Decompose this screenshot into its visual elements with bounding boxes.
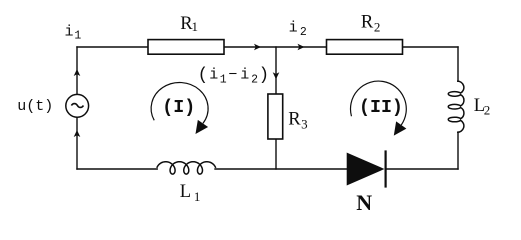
source U1 sine symbol [71, 104, 83, 108]
svg-text:2: 2 [374, 19, 381, 34]
wire bottom middle segment [215, 168, 348, 170]
svg-text:R: R [361, 12, 374, 32]
wire right vertical lower [457, 132, 459, 169]
wire middle branch lower [275, 139, 277, 169]
resistor R2 [327, 40, 403, 55]
svg-text:1: 1 [74, 30, 81, 43]
svg-text:i: i [65, 23, 74, 40]
inductor L1 [157, 162, 216, 174]
svg-text:i: i [209, 67, 218, 84]
svg-text:u(t): u(t) [17, 98, 53, 115]
mesh loop II arrowhead [394, 121, 407, 135]
resistor R3 [268, 94, 283, 139]
svg-text:1: 1 [220, 74, 227, 87]
mesh loop II arc [350, 81, 406, 125]
svg-text:L: L [180, 182, 191, 202]
svg-text:1: 1 [192, 19, 199, 34]
svg-text:(: ( [198, 65, 209, 85]
wire bottom right segment [386, 168, 459, 170]
svg-text:3: 3 [301, 117, 308, 132]
wire left vertical lower [76, 117, 78, 169]
wire left vertical upper [76, 47, 78, 94]
svg-text:2: 2 [484, 103, 491, 118]
svg-text:N: N [356, 190, 372, 215]
wire middle branch upper [275, 47, 277, 94]
arrow after R1 [254, 44, 261, 51]
arrow (i1-i2) down middle branch [273, 72, 280, 79]
svg-text:1: 1 [194, 189, 201, 204]
wire right vertical upper [457, 47, 459, 81]
svg-text:2: 2 [251, 74, 258, 87]
svg-text:i: i [240, 67, 249, 84]
source U1 circle [66, 94, 89, 117]
arrow i1 above source [74, 69, 81, 76]
diode N triangle [347, 153, 383, 184]
svg-text:(II): (II) [359, 98, 403, 118]
arrow i1 below source [74, 130, 81, 137]
resistor R1 [148, 40, 224, 55]
arrow i2 after junction [298, 44, 305, 51]
svg-text:i: i [289, 20, 298, 37]
mesh loop I arrowhead [195, 120, 208, 134]
wire bottom left segment [77, 168, 157, 170]
wire R2 to top-right corner [403, 46, 459, 48]
wire R1 to R2 across junction [224, 46, 327, 48]
svg-text:−: − [228, 67, 237, 84]
svg-text:): ) [259, 65, 270, 85]
svg-text:2: 2 [300, 26, 307, 39]
inductor L2 [448, 81, 464, 132]
svg-text:R: R [288, 110, 301, 130]
svg-text:(I): (I) [162, 98, 195, 118]
diode N cathode bar [385, 150, 387, 187]
mesh loop I arc [151, 82, 208, 123]
wire top-left horizontal [77, 46, 148, 48]
